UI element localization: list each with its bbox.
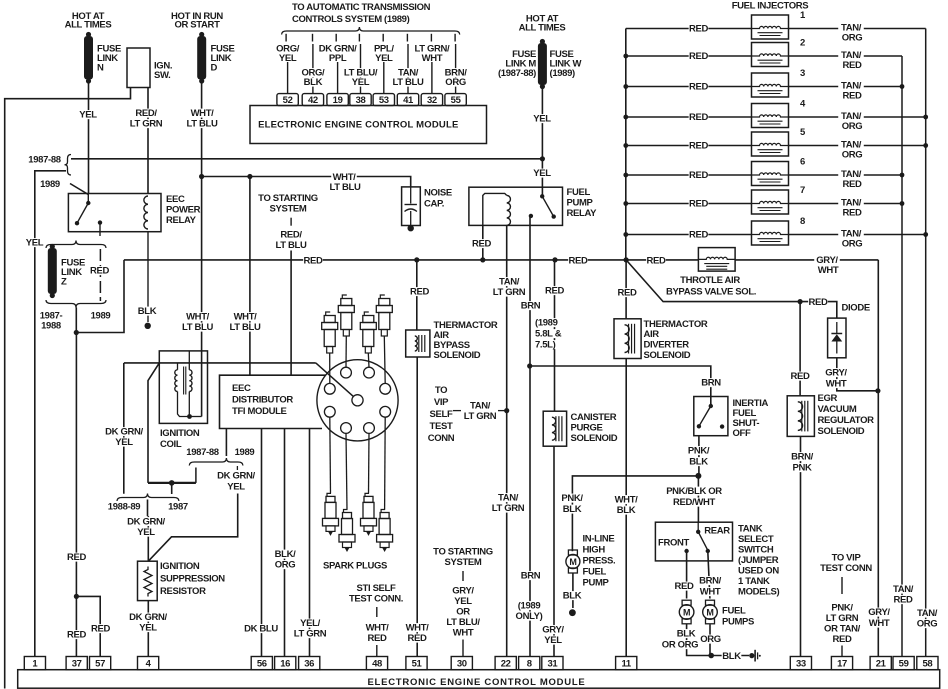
wire BRN fuel pump relay to inertia switch and terminal 8 xyxy=(513,216,544,657)
svg-text:SOLENOID: SOLENOID xyxy=(818,426,865,437)
svg-text:LT GRN: LT GRN xyxy=(294,629,327,640)
svg-text:16: 16 xyxy=(280,659,290,670)
svg-text:HIGH: HIGH xyxy=(583,545,606,556)
svg-text:BLK: BLK xyxy=(304,77,323,88)
label 1989 left xyxy=(40,179,60,190)
brace automatic transmission controls xyxy=(282,27,460,35)
svg-text:NOISE: NOISE xyxy=(424,188,452,199)
svg-text:N: N xyxy=(97,63,104,74)
svg-text:LT BLU: LT BLU xyxy=(182,322,213,333)
label to starting system upper xyxy=(258,193,318,215)
wire RED node to bus elbow xyxy=(76,260,124,333)
label 1987 xyxy=(168,502,188,513)
ground dot noise cap xyxy=(408,225,414,231)
svg-text:RED: RED xyxy=(689,141,708,152)
spark plug bottom 1 xyxy=(323,493,339,536)
svg-text:52: 52 xyxy=(283,95,293,106)
relay coil EEC power relay xyxy=(144,196,148,229)
terminal 22 xyxy=(495,657,516,670)
svg-text:LT GRN: LT GRN xyxy=(826,613,859,624)
svg-text:TEST CONN.: TEST CONN. xyxy=(349,594,403,605)
svg-text:RED/: RED/ xyxy=(280,230,302,241)
terminal 16 xyxy=(275,657,296,670)
spark plug top 1 xyxy=(322,312,338,353)
svg-text:FUEL: FUEL xyxy=(583,567,607,578)
node RED splice above terminal 37 xyxy=(74,594,79,599)
svg-text:48: 48 xyxy=(372,659,382,670)
node hot-in-run-or-start xyxy=(171,11,223,31)
label 1989 fuse link Z xyxy=(91,311,111,322)
svg-text:COIL: COIL xyxy=(160,439,182,450)
svg-text:AIR: AIR xyxy=(644,329,660,340)
svg-text:SOLENOID: SOLENOID xyxy=(434,350,481,361)
label fuse link Z xyxy=(61,258,85,288)
terminal 48 xyxy=(366,657,387,670)
svg-text:ORG: ORG xyxy=(842,33,863,44)
svg-text:LT BLU: LT BLU xyxy=(393,77,424,88)
svg-text:WHT/: WHT/ xyxy=(615,495,639,506)
relay coil fuel pump relay xyxy=(483,193,511,225)
module EEC distributor TFI xyxy=(220,375,327,428)
wire TAN/ORG right bus to terminal 58 xyxy=(914,29,940,657)
svg-text:YEL: YEL xyxy=(352,77,370,88)
svg-text:DK GRN/: DK GRN/ xyxy=(105,427,143,438)
solenoid EGR vacuum regulator xyxy=(787,396,814,437)
module electronic engine control top xyxy=(250,106,487,144)
svg-text:RED: RED xyxy=(67,630,86,641)
wire BLK OR ORG front pump to ground xyxy=(661,624,711,656)
svg-text:RED: RED xyxy=(689,230,708,241)
svg-text:BLK: BLK xyxy=(722,651,741,662)
label EEC distributor TFI module xyxy=(232,383,293,417)
svg-text:17: 17 xyxy=(837,659,847,670)
svg-text:LT GRN: LT GRN xyxy=(464,411,497,422)
svg-text:RED: RED xyxy=(689,112,708,123)
svg-text:YEL: YEL xyxy=(375,53,393,64)
svg-text:RED: RED xyxy=(832,634,851,645)
svg-text:RED: RED xyxy=(842,60,861,71)
wire RED fuel pump relay coil to bus xyxy=(472,225,492,260)
wire WHT/LT BLU to noise capacitor xyxy=(202,172,411,193)
svg-text:DIODE: DIODE xyxy=(842,303,870,314)
svg-text:30: 30 xyxy=(457,659,467,670)
svg-text:OR START: OR START xyxy=(174,20,220,31)
wire YEL fuse link N to EEC power relay xyxy=(78,82,98,194)
svg-text:WHT: WHT xyxy=(453,628,474,639)
wire RED branch to terminal 57 xyxy=(76,596,110,656)
solenoid throttle air bypass valve xyxy=(698,248,735,272)
svg-text:BLK: BLK xyxy=(617,505,636,516)
svg-text:RED: RED xyxy=(689,199,708,210)
svg-text:GRY/: GRY/ xyxy=(825,368,847,379)
svg-text:1987-88: 1987-88 xyxy=(186,447,218,458)
wire DK GRN/YEL relay output to ignition coil xyxy=(124,362,316,364)
svg-text:RED: RED xyxy=(617,288,636,299)
wire BRN to inertia fuel shut-off xyxy=(530,366,722,406)
svg-text:RED: RED xyxy=(689,82,708,93)
svg-text:WHT: WHT xyxy=(422,53,443,64)
wire DK GRN/YEL 1988-89 stub xyxy=(102,363,145,494)
wire PNK/BLK inertia to junction xyxy=(686,436,712,476)
svg-text:ORG: ORG xyxy=(842,121,863,132)
svg-text:21: 21 xyxy=(876,659,887,670)
svg-text:8: 8 xyxy=(527,659,532,670)
label fuse link D xyxy=(211,44,235,74)
svg-text:BLK: BLK xyxy=(677,629,696,640)
svg-text:SOLENOID: SOLENOID xyxy=(644,350,691,361)
svg-text:BLK/: BLK/ xyxy=(275,549,296,560)
wire DK GRN/YEL resistor to terminal 4 xyxy=(126,601,169,657)
svg-text:D: D xyxy=(211,63,218,74)
node BLK pump ground junction xyxy=(708,653,714,659)
svg-text:PNK/: PNK/ xyxy=(561,493,583,504)
svg-text:53: 53 xyxy=(379,95,389,106)
wire RED 1989 dashed alternate xyxy=(90,249,110,301)
node injector bus row 6 xyxy=(623,173,628,178)
label fuse link W 1989 xyxy=(550,49,582,79)
svg-text:RED: RED xyxy=(808,297,827,308)
svg-text:EEC: EEC xyxy=(232,383,251,394)
wire plug bottom 4 to distributor xyxy=(384,417,387,509)
wire EEC pin 41 xyxy=(389,34,426,94)
fuse link M/W xyxy=(538,39,547,89)
svg-text:POWER: POWER xyxy=(166,205,201,216)
svg-text:YEL: YEL xyxy=(533,114,551,125)
svg-text:RED: RED xyxy=(842,208,861,219)
svg-text:11: 11 xyxy=(622,659,632,670)
wire plug top 2 to distributor xyxy=(345,336,347,367)
wire RED/LT GRN ignition switch to relay coil xyxy=(127,88,164,194)
wire DK GRN/YEL 1989 TFI path xyxy=(148,471,257,562)
solenoid thermactor air bypass xyxy=(406,330,430,357)
wire ORG rear pump to ground xyxy=(700,625,721,656)
wire brace stem to resistor xyxy=(124,500,167,562)
svg-text:ORG: ORG xyxy=(275,560,296,571)
svg-text:RED: RED xyxy=(842,91,861,102)
label fuel injectors xyxy=(732,1,809,12)
svg-text:ORG: ORG xyxy=(842,150,863,161)
node PNK/BLK junction xyxy=(695,473,701,479)
svg-text:RED: RED xyxy=(646,255,665,266)
svg-text:PNK: PNK xyxy=(792,463,811,474)
label spark plugs xyxy=(323,560,387,571)
brace fuse link Z top xyxy=(46,241,106,249)
distributor rotor xyxy=(316,363,363,406)
svg-text:ALL TIMES: ALL TIMES xyxy=(65,20,112,31)
wire EEC pin 52 xyxy=(276,34,300,94)
pin 55 xyxy=(445,94,466,106)
svg-text:BLK: BLK xyxy=(138,306,157,317)
svg-text:32: 32 xyxy=(427,95,437,106)
wire RED to diode xyxy=(800,297,837,318)
terminal 31 xyxy=(542,657,563,670)
svg-text:DK GRN/: DK GRN/ xyxy=(217,471,255,482)
spark plug bottom 3 xyxy=(361,493,377,536)
wire WHT/LT BLU fuse link D down to ignition coil xyxy=(179,82,221,417)
injector 3 xyxy=(626,68,902,102)
svg-text:CONTROLS SYSTEM (1989): CONTROLS SYSTEM (1989) xyxy=(292,14,410,25)
label 1989 5.8L 7.5L xyxy=(534,318,571,351)
terminal 36 xyxy=(299,657,320,670)
svg-text:MODELS): MODELS) xyxy=(738,587,780,598)
node RED junction left xyxy=(74,330,79,335)
ground dot BLK under EEC power relay xyxy=(145,323,151,329)
node TAN/ORG bus junctions xyxy=(923,115,928,237)
wire RED bus to thermactor bypass xyxy=(410,260,430,330)
svg-text:BRN: BRN xyxy=(521,571,541,582)
wire plug top 3 to distributor xyxy=(367,353,370,367)
injector 8 xyxy=(626,216,926,250)
svg-text:TO STARTING: TO STARTING xyxy=(433,547,493,558)
wire PNK/BLK OR RED/WHT to tank select switch xyxy=(661,476,728,522)
svg-text:DIVERTER: DIVERTER xyxy=(644,340,690,351)
terminal 56 xyxy=(251,657,272,670)
svg-text:TANK: TANK xyxy=(738,524,763,535)
svg-text:RED: RED xyxy=(472,239,491,250)
ignition coil T1 xyxy=(159,351,207,424)
node injector bus row 4 xyxy=(623,115,628,120)
label REAR xyxy=(704,526,730,537)
pin 38 xyxy=(350,94,371,106)
svg-text:SYSTEM: SYSTEM xyxy=(270,204,307,215)
svg-text:YEL/: YEL/ xyxy=(300,618,320,629)
wire injector left RED bus xyxy=(625,29,627,260)
terminal 58 xyxy=(917,657,938,670)
svg-text:YEL: YEL xyxy=(544,635,562,646)
pin 19 xyxy=(327,94,348,106)
wire fuse link Z stem to RED node xyxy=(75,308,77,333)
svg-text:RED: RED xyxy=(410,287,429,298)
label 1989 TFI xyxy=(235,447,255,458)
svg-text:1 TANK: 1 TANK xyxy=(738,576,770,587)
svg-text:7.5L): 7.5L) xyxy=(535,340,556,351)
ground chassis symbol xyxy=(749,650,761,662)
svg-text:PRESS.: PRESS. xyxy=(583,556,616,567)
svg-text:RED: RED xyxy=(689,24,708,35)
svg-text:DK BLU: DK BLU xyxy=(244,624,278,635)
svg-text:PUMPS: PUMPS xyxy=(722,617,754,628)
label throttle air bypass valve sol xyxy=(666,275,756,297)
injector 6 xyxy=(626,157,902,191)
wire GRY/YEL canister to terminal 31 xyxy=(540,446,566,656)
relay EEC power relay K1 xyxy=(68,194,161,232)
svg-text:58: 58 xyxy=(922,659,932,670)
svg-text:YEL: YEL xyxy=(26,238,44,249)
node injector bus row 2 xyxy=(623,54,628,59)
spark plug bottom 4 xyxy=(377,510,393,553)
label diode xyxy=(842,303,870,314)
svg-text:1989: 1989 xyxy=(91,311,111,322)
svg-text:TAN/: TAN/ xyxy=(917,608,938,619)
wire EEC pin 42 xyxy=(300,34,326,94)
label 1987-88 left xyxy=(28,155,60,166)
terminal 33 xyxy=(790,657,811,670)
label to starting system lower xyxy=(433,547,493,569)
label noise cap xyxy=(424,188,452,210)
svg-text:BYPASS VALVE SOL.: BYPASS VALVE SOL. xyxy=(666,286,756,297)
injector 1 xyxy=(626,10,926,44)
label to vip self test conn xyxy=(428,385,455,444)
svg-text:PUMP: PUMP xyxy=(583,578,610,589)
svg-text:TO STARTING: TO STARTING xyxy=(258,193,318,204)
wire 1987-88 horizontal bus xyxy=(71,158,542,160)
svg-text:WHT/: WHT/ xyxy=(186,312,210,323)
svg-text:YEL: YEL xyxy=(115,437,133,448)
svg-text:YEL: YEL xyxy=(227,482,245,493)
svg-text:BLK: BLK xyxy=(689,457,708,468)
svg-text:51: 51 xyxy=(412,659,423,670)
svg-text:M: M xyxy=(569,557,576,567)
svg-text:THROTLE AIR: THROTLE AIR xyxy=(680,275,740,286)
svg-text:SWITCH: SWITCH xyxy=(738,545,774,556)
svg-text:IGNITION: IGNITION xyxy=(160,428,200,439)
wire EEC pin 32 xyxy=(414,34,450,94)
injector 2 xyxy=(626,38,902,72)
svg-text:CANISTER: CANISTER xyxy=(571,412,617,423)
svg-text:1987: 1987 xyxy=(168,502,188,513)
svg-text:EEC: EEC xyxy=(166,194,185,205)
svg-text:SELF: SELF xyxy=(430,409,453,420)
label in-line high press fuel pump xyxy=(583,534,616,589)
wire WHT/BLK diverter to terminal 11 xyxy=(613,359,639,657)
motor in-line high pressure fuel pump xyxy=(566,550,580,573)
pin 41 xyxy=(397,94,418,106)
svg-text:BLK: BLK xyxy=(563,504,582,515)
node RED bus at thermactor bypass xyxy=(414,257,419,262)
svg-text:FUEL: FUEL xyxy=(567,187,591,198)
svg-text:LT BLU: LT BLU xyxy=(230,322,261,333)
svg-text:OR ORG: OR ORG xyxy=(662,640,698,651)
wire dash vip to TAN/LT GRN xyxy=(453,410,507,412)
label canister purge solenoid xyxy=(571,412,618,444)
wire RED 1989 5.8L 7.5L to canister purge xyxy=(545,260,565,411)
pin 52 xyxy=(277,94,298,106)
node YEL junction 1987-88 bus xyxy=(540,156,545,161)
wire EEC pin 19 xyxy=(319,34,357,94)
svg-text:TEST: TEST xyxy=(430,421,453,432)
svg-text:19: 19 xyxy=(333,95,343,106)
node injector bus row 3 xyxy=(623,84,628,89)
svg-text:REGULATOR: REGULATOR xyxy=(818,415,875,426)
svg-text:SPARK PLUGS: SPARK PLUGS xyxy=(323,560,387,571)
svg-text:ONLY): ONLY) xyxy=(516,611,543,622)
switch inertia fuel shut-off xyxy=(694,397,728,436)
wire BLK in-line pump to ground xyxy=(562,573,582,608)
label 1987-88 TFI xyxy=(186,447,218,458)
wire stub to starting system xyxy=(290,218,292,226)
terminal 4 xyxy=(138,657,159,670)
svg-text:RED: RED xyxy=(67,552,86,563)
node injector bus row 7 xyxy=(623,201,628,206)
wire RED to EGR solenoid xyxy=(790,302,810,396)
svg-text:YEL: YEL xyxy=(137,527,155,538)
wire RED main bus xyxy=(124,255,698,266)
svg-text:WHT: WHT xyxy=(818,265,839,276)
svg-text:IN-LINE: IN-LINE xyxy=(583,534,615,545)
svg-text:Z: Z xyxy=(61,277,67,288)
svg-text:PNK/: PNK/ xyxy=(831,603,853,614)
switch tank select xyxy=(655,522,732,561)
label to vip test conn xyxy=(820,553,872,575)
wire TFI stub 1987-88/1989 xyxy=(225,429,227,457)
injector 7 xyxy=(626,185,902,219)
label STI self test conn xyxy=(349,583,403,605)
motor front fuel pump xyxy=(679,600,694,624)
svg-text:TO: TO xyxy=(435,385,447,396)
resistor ignition suppression xyxy=(138,561,158,600)
brace fuse link Z bottom xyxy=(46,300,106,308)
svg-text:8: 8 xyxy=(800,216,805,227)
svg-text:22: 22 xyxy=(501,659,511,670)
svg-text:USED ON: USED ON xyxy=(738,566,779,577)
node ignition coil common xyxy=(187,414,192,419)
svg-text:(1989: (1989 xyxy=(518,601,541,612)
svg-text:2: 2 xyxy=(800,38,805,49)
label EEC power relay xyxy=(166,194,201,226)
svg-text:YEL: YEL xyxy=(139,623,157,634)
spark plug top 3 xyxy=(360,312,376,353)
wire RED injector bus diagonal to diode/EGR xyxy=(626,260,800,302)
relay fuel pump relay K2 xyxy=(469,187,563,225)
terminal 59 xyxy=(893,657,914,670)
svg-text:BRN/: BRN/ xyxy=(791,452,814,463)
svg-text:RELAY: RELAY xyxy=(166,215,197,226)
wire 1987 bold link xyxy=(148,468,196,483)
label ignition coil xyxy=(160,428,200,450)
svg-text:RED: RED xyxy=(689,51,708,62)
module electronic engine control bottom xyxy=(18,670,940,689)
svg-text:PPL: PPL xyxy=(329,53,347,64)
svg-text:6: 6 xyxy=(800,157,805,168)
wire YEL to fuel pump relay xyxy=(532,159,552,197)
terminal 57 xyxy=(90,657,111,670)
svg-text:LT GRN: LT GRN xyxy=(492,503,525,514)
brace 1988-89/1987 group xyxy=(117,494,179,502)
wire stub vip test conn to terminal 17 xyxy=(841,577,843,657)
svg-text:RED: RED xyxy=(674,581,693,592)
solenoid canister purge xyxy=(543,411,566,446)
svg-text:TAN/: TAN/ xyxy=(499,277,520,288)
wire stub starting system lower xyxy=(462,571,464,657)
svg-text:RED: RED xyxy=(90,266,109,277)
label 1988-89 xyxy=(108,502,140,513)
svg-text:1988: 1988 xyxy=(41,321,61,332)
svg-text:GRY/: GRY/ xyxy=(868,607,890,618)
wire RED front pump xyxy=(674,551,694,599)
node injector bus row 8 xyxy=(623,232,628,237)
svg-text:PNK/BLK OR: PNK/BLK OR xyxy=(666,486,722,497)
node GRY/WHT diode junction xyxy=(875,388,880,393)
wire BRN/PNK EGR to terminal 33 xyxy=(789,436,815,656)
svg-text:VIP: VIP xyxy=(434,397,449,408)
svg-text:LT BLU: LT BLU xyxy=(330,182,361,193)
svg-text:TAN/: TAN/ xyxy=(498,493,519,504)
svg-text:RED: RED xyxy=(790,371,809,382)
wire coil common to WHT/LT BLU xyxy=(190,416,202,418)
wire YEL fuse link M/W down xyxy=(532,88,552,159)
svg-text:OR TAN/: OR TAN/ xyxy=(824,624,861,635)
svg-text:M: M xyxy=(683,607,690,617)
svg-text:59: 59 xyxy=(899,659,909,670)
svg-text:ORG: ORG xyxy=(445,77,466,88)
svg-text:LT GRN: LT GRN xyxy=(493,287,526,298)
spark plug bottom 2 xyxy=(339,510,355,553)
wire BLK/ORG TFI to terminal 16 xyxy=(272,429,298,657)
motor rear fuel pump xyxy=(703,600,718,624)
wire EEC pin 55 xyxy=(443,34,469,94)
injector 5 xyxy=(626,127,926,161)
spark plug top 2 xyxy=(338,295,354,336)
